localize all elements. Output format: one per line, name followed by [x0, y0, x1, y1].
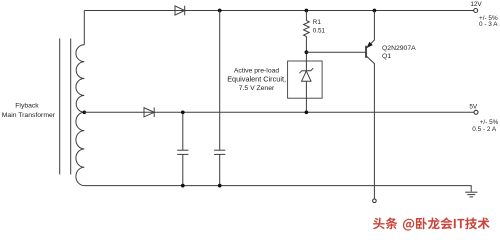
node: zener bottom on 5V rail — [305, 110, 309, 114]
active pre-load equivalent circuit box — [288, 61, 323, 98]
svg-text:Main Transformer: Main Transformer — [2, 112, 56, 119]
node: top rail / Q1 emitter junction — [373, 9, 377, 13]
node: transformer center tap — [82, 110, 86, 114]
node: top rail / R1 junction — [305, 9, 309, 13]
terminal: 12V output — [474, 9, 478, 13]
ground symbol — [465, 192, 477, 197]
node: C1 top on 5V rail — [181, 110, 185, 114]
label Flyback Main Transformer — [2, 103, 56, 120]
transistor Q1 Q2N2907A (PNP) — [306, 11, 374, 199]
node: top rail / 12V cap junction — [218, 9, 222, 13]
terminal: 5V output — [474, 110, 478, 114]
wire top rail (12V rail) — [84, 10, 473, 12]
label active pre-load — [227, 68, 286, 92]
wire from transformer secondary top to top rail — [83, 11, 85, 45]
node: C1 bottom on common rail — [181, 184, 185, 188]
watermark 头条@卧龙会IT技术 (red) — [373, 217, 490, 230]
diode CR1 (top rectifier) — [175, 6, 185, 16]
svg-text:+/- 5%: +/- 5% — [480, 119, 499, 126]
node: C2 bottom on common rail — [218, 184, 222, 188]
wire 5V rail — [84, 111, 474, 113]
svg-text:R1: R1 — [313, 19, 322, 26]
resistor R1 0.51 (zigzag) — [304, 11, 310, 62]
zener diode VR1 7.5V — [299, 61, 313, 112]
svg-text:Q1: Q1 — [382, 53, 391, 60]
transformer T1 core (two vertical bars) — [60, 39, 71, 175]
svg-text:5V: 5V — [469, 104, 478, 111]
svg-text:Flyback: Flyback — [15, 103, 39, 110]
wire bottom common rail — [84, 186, 471, 192]
svg-text:0.5 - 2 A: 0.5 - 2 A — [472, 126, 497, 133]
capacitor C2 (12V filter) — [214, 11, 225, 186]
svg-text:0.51: 0.51 — [313, 28, 326, 35]
capacitor C1 (5V filter) — [177, 112, 188, 185]
terminal: common output — [373, 199, 377, 203]
svg-text:Equivalent Circuit,: Equivalent Circuit, — [227, 74, 286, 83]
svg-text:Q2N2907A: Q2N2907A — [382, 45, 416, 52]
svg-text:12V: 12V — [470, 1, 482, 8]
diode CR2 (5V rectifier) — [144, 108, 154, 118]
transformer T1 secondary upper winding (4 turns) — [76, 45, 84, 113]
transformer T1 secondary lower winding (4 turns) — [76, 112, 84, 185]
svg-text:0 - 3 A: 0 - 3 A — [479, 21, 498, 28]
svg-text:7.5 V Zener: 7.5 V Zener — [239, 85, 275, 92]
node: R1 bottom / Q1 base junction — [305, 50, 309, 54]
